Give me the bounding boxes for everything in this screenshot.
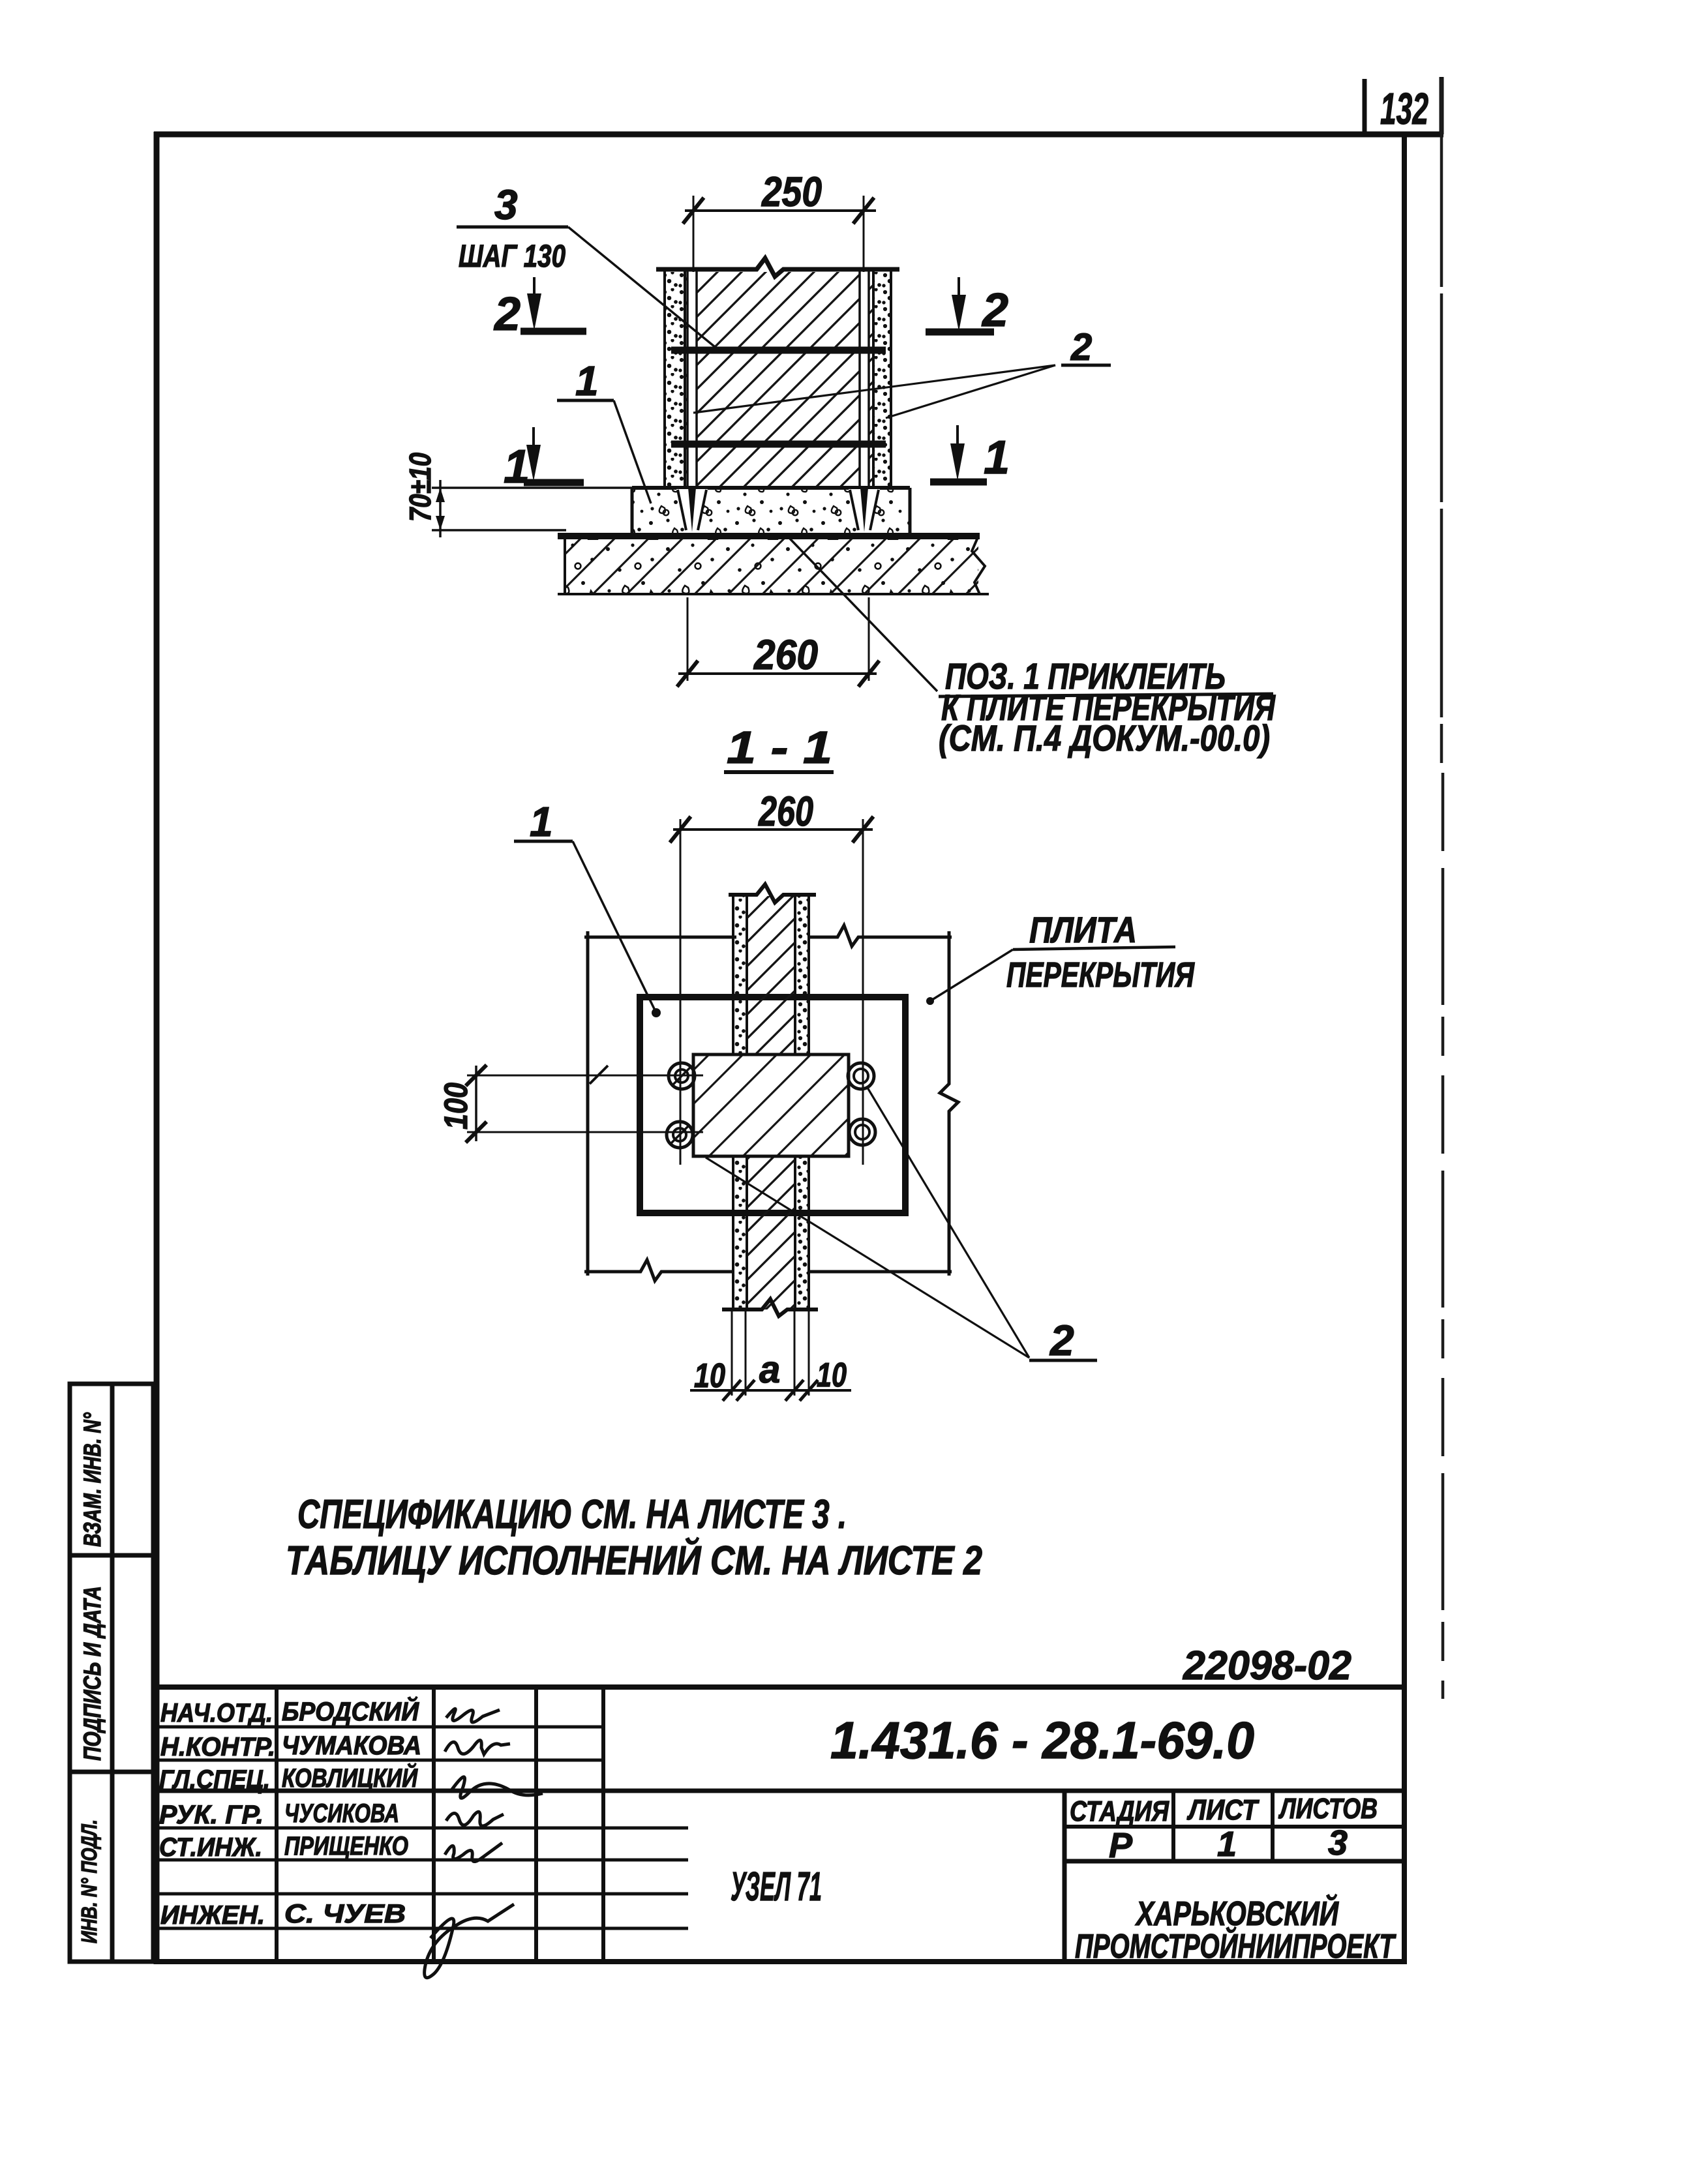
page number box 132 xyxy=(1365,77,1441,134)
drawing frame border xyxy=(154,132,1443,1964)
dimension 260 under section xyxy=(677,597,879,687)
svg-text:1: 1 xyxy=(984,432,1010,484)
slab outline square with breaks xyxy=(584,925,958,1281)
svg-text:ЛИСТОВ: ЛИСТОВ xyxy=(1278,1793,1378,1825)
dimension 70±10 xyxy=(432,480,636,537)
dimension 10 a 10 xyxy=(690,1311,851,1401)
svg-text:2: 2 xyxy=(1070,326,1092,368)
svg-text:3: 3 xyxy=(1328,1823,1348,1862)
svg-text:УЗЕЛ 71: УЗЕЛ 71 xyxy=(731,1864,822,1909)
wall top cut line with break xyxy=(656,258,899,277)
svg-text:ВЗАМ. ИНВ. N°: ВЗАМ. ИНВ. N° xyxy=(79,1413,106,1547)
svg-text:ШАГ 130: ШАГ 130 xyxy=(459,239,566,274)
dimension 250 xyxy=(683,196,876,272)
svg-text:250: 250 xyxy=(761,168,822,215)
partition wall: right stucco band xyxy=(873,272,891,488)
svg-text:ЧУСИКОВА: ЧУСИКОВА xyxy=(284,1799,399,1828)
dowel funnel left xyxy=(676,489,708,531)
dowel spike right xyxy=(860,488,868,532)
horizontal tie bar poz.3 lower xyxy=(671,441,886,448)
svg-text:ГЛ.СПЕЦ.: ГЛ.СПЕЦ. xyxy=(159,1765,270,1794)
svg-text:ИНВ. N° ПОДЛ.: ИНВ. N° ПОДЛ. xyxy=(77,1819,101,1943)
svg-text:1 - 1: 1 - 1 xyxy=(727,722,832,773)
wall top cap with break xyxy=(729,884,816,903)
svg-text:ХАРЬКОВСКИЙ: ХАРЬКОВСКИЙ xyxy=(1135,1894,1340,1933)
signatures xyxy=(425,1709,543,1977)
svg-text:КОВЛИЦКИЙ: КОВЛИЦКИЙ xyxy=(282,1762,418,1793)
dimension 100 xyxy=(466,1065,703,1143)
svg-text:a: a xyxy=(759,1349,780,1391)
left stamp strip xyxy=(70,1384,153,1962)
svg-text:2: 2 xyxy=(493,288,521,340)
dowel spike left xyxy=(688,488,696,532)
svg-text:260: 260 xyxy=(758,788,813,835)
svg-text:3: 3 xyxy=(494,181,518,228)
svg-text:2: 2 xyxy=(1049,1316,1074,1364)
svg-text:ИНЖЕН.: ИНЖЕН. xyxy=(160,1901,265,1930)
mortar cross xyxy=(693,1055,849,1156)
svg-text:Н.КОНТР.: Н.КОНТР. xyxy=(160,1733,275,1761)
svg-text:10: 10 xyxy=(817,1356,847,1394)
wall strip plan: bottom part xyxy=(733,1156,747,1309)
dowel funnel right xyxy=(849,489,880,531)
wall strip edges xyxy=(733,895,809,1309)
svg-text:ПЕРЕКРЫТИЯ: ПЕРЕКРЫТИЯ xyxy=(1006,955,1195,995)
svg-text:1: 1 xyxy=(1217,1825,1237,1864)
section mark 2 right xyxy=(926,329,994,336)
svg-text:1: 1 xyxy=(575,357,599,404)
svg-text:22098-02: 22098-02 xyxy=(1183,1643,1351,1688)
svg-text:РУК. ГР.: РУК. ГР. xyxy=(159,1801,264,1829)
horizontal tie bar poz.3 upper xyxy=(671,347,886,354)
leader to glue note xyxy=(790,539,937,691)
svg-text:ЛИСТ: ЛИСТ xyxy=(1186,1794,1259,1826)
element poz.1 square (thick) xyxy=(640,997,905,1213)
dimension 260 plan xyxy=(670,816,873,1165)
svg-text:ЧУМАКОВА: ЧУМАКОВА xyxy=(282,1731,421,1760)
svg-text:ПРИЩЕНКО: ПРИЩЕНКО xyxy=(284,1832,408,1861)
svg-text:БРОДСКИЙ: БРОДСКИЙ xyxy=(282,1696,419,1726)
svg-text:1.431.6 - 28.1-69.0: 1.431.6 - 28.1-69.0 xyxy=(830,1711,1254,1769)
svg-text:70±10: 70±10 xyxy=(403,453,437,522)
section mark 1 right xyxy=(930,479,987,486)
svg-text:260: 260 xyxy=(753,631,818,678)
floor slab section xyxy=(565,537,978,594)
partition wall edges xyxy=(665,269,891,488)
dowel pin channel left xyxy=(687,272,697,488)
dowel pin channel right xyxy=(859,272,869,488)
svg-text:Р: Р xyxy=(1109,1826,1133,1865)
svg-text:С. ЧУЕВ: С. ЧУЕВ xyxy=(284,1900,406,1928)
wall strip plan: top part xyxy=(733,896,747,1055)
scan paper edge line xyxy=(1441,78,1443,1699)
partition wall: brick core hatch xyxy=(685,272,873,488)
svg-text:НАЧ.ОТД.: НАЧ.ОТД. xyxy=(160,1699,273,1728)
dowel circles xyxy=(667,1063,875,1148)
svg-text:ПОДПИСЬ И ДАТА: ПОДПИСЬ И ДАТА xyxy=(79,1586,106,1761)
partition wall: left stucco band xyxy=(665,272,685,488)
svg-text:СТАДИЯ: СТАДИЯ xyxy=(1070,1795,1169,1827)
svg-text:(СМ. П.4 ДОКУМ.-00.0): (СМ. П.4 ДОКУМ.-00.0) xyxy=(939,717,1270,758)
svg-text:132: 132 xyxy=(1380,84,1428,134)
title block grid xyxy=(157,1687,1404,1962)
svg-text:100: 100 xyxy=(438,1083,474,1129)
svg-text:СТ.ИНЖ.: СТ.ИНЖ. xyxy=(159,1833,262,1862)
svg-text:10: 10 xyxy=(694,1357,725,1395)
svg-text:1: 1 xyxy=(530,798,553,845)
svg-text:ПЛИТА: ПЛИТА xyxy=(1029,909,1137,950)
svg-text:ТАБЛИЦУ ИСПОЛНЕНИЙ СМ. НА ЛИСТ: ТАБЛИЦУ ИСПОЛНЕНИЙ СМ. НА ЛИСТЕ 2 xyxy=(286,1537,982,1583)
svg-text:2: 2 xyxy=(981,284,1008,337)
svg-text:СПЕЦИФИКАЦИЮ СМ. НА ЛИСТЕ 3 .: СПЕЦИФИКАЦИЮ СМ. НА ЛИСТЕ 3 . xyxy=(297,1492,847,1537)
label 2 leaders (plan) xyxy=(868,1088,1029,1358)
svg-text:ПРОМСТРОЙНИИПРОЕКТ: ПРОМСТРОЙНИИПРОЕКТ xyxy=(1075,1926,1396,1966)
wall bottom cap with break xyxy=(722,1299,818,1316)
mortar base block poz.1 xyxy=(632,488,910,535)
